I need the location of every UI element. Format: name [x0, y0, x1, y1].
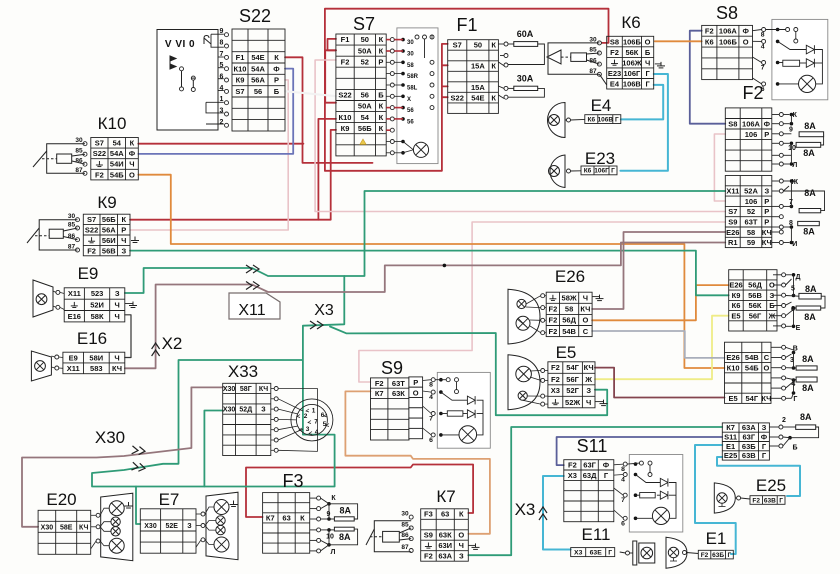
wire 58 Е16-Х2-F2 [125, 243, 726, 369]
svg-text:З: З [115, 289, 120, 298]
svg-text:54А: 54А [251, 64, 265, 73]
svg-text:К: К [122, 215, 127, 224]
svg-text:8А: 8А [803, 148, 815, 158]
svg-text:Е26: Е26 [726, 353, 739, 362]
svg-text:О: О [743, 37, 749, 46]
svg-text:5: 5 [220, 62, 224, 69]
svg-text:К9: К9 [732, 291, 741, 300]
wire 58 Е26-F2B [592, 232, 725, 309]
svg-text:63К: 63К [392, 389, 405, 398]
svg-text:63Б: 63Б [712, 552, 724, 559]
svg-text:Г: Г [615, 116, 619, 123]
svg-text:К: К [274, 53, 279, 62]
svg-text:106: 106 [745, 130, 758, 139]
S11 diode 1 [660, 478, 668, 486]
svg-text:К6: К6 [588, 116, 596, 123]
S8 lamp [799, 75, 816, 92]
svg-text:Ф: Ф [742, 27, 749, 36]
svg-text:Р: Р [764, 130, 769, 139]
svg-text:К: К [491, 62, 496, 71]
svg-text:54: 54 [113, 139, 122, 148]
svg-text:9: 9 [327, 511, 331, 518]
svg-text:К: К [459, 510, 464, 519]
svg-text:87: 87 [401, 544, 409, 551]
svg-text:54Б: 54Б [745, 363, 759, 372]
svg-text:63: 63 [441, 510, 449, 519]
svg-text:30А: 30А [517, 74, 534, 84]
wire 56 S22-S7 white [285, 91, 336, 96]
Е7 pins [201, 512, 205, 516]
svg-text:S7: S7 [728, 207, 737, 216]
К6 relay pins 30 85 86 87 [597, 41, 601, 45]
svg-text:К7: К7 [436, 487, 455, 506]
svg-text:6: 6 [220, 74, 224, 81]
wire 50 loop S7 bottom-right to F1 [325, 44, 448, 171]
svg-text:106Г: 106Г [594, 168, 609, 175]
svg-text:54В: 54В [562, 327, 576, 336]
wire 63В Е25-F2 [717, 457, 800, 496]
svg-text:4: 4 [220, 85, 224, 92]
svg-text:56А: 56А [251, 76, 265, 85]
S11 resistor [640, 493, 656, 498]
wire 63К S9-К7 [345, 391, 490, 533]
К9 relay pins 30 85 86 87 [76, 218, 80, 222]
svg-text:Е4: Е4 [610, 79, 620, 88]
svg-text:К: К [300, 514, 305, 523]
wire 54В Е26-F2D [592, 331, 724, 358]
S8 internals [776, 28, 780, 32]
svg-text:S7: S7 [95, 139, 104, 148]
svg-text:56: 56 [407, 119, 414, 125]
F1 table [448, 40, 499, 114]
svg-text:Ф: Ф [603, 461, 610, 470]
svg-text:50А: 50А [358, 46, 372, 55]
wire 56В К9-F2C [130, 251, 729, 296]
svg-text:30: 30 [68, 213, 76, 220]
svg-text:К10: К10 [234, 64, 247, 73]
svg-text:63В: 63В [764, 497, 776, 504]
S8 diode 2 [806, 59, 814, 68]
svg-text:63Т: 63Т [745, 218, 758, 227]
svg-text:63В: 63В [742, 451, 756, 460]
svg-text:Х30: Х30 [223, 386, 236, 393]
svg-text:56К: 56К [625, 48, 638, 57]
svg-text:58Г: 58Г [240, 386, 252, 393]
wire 56Б К9-S7 [130, 130, 336, 220]
svg-text:56Г: 56Г [749, 311, 762, 320]
svg-text:F2: F2 [549, 305, 558, 314]
svg-text:О: О [763, 363, 769, 372]
К10 table [91, 138, 139, 180]
svg-text:2: 2 [304, 413, 308, 420]
svg-text:54А: 54А [110, 149, 124, 158]
wire 52 Е9-Х11-F2 [125, 191, 726, 293]
svg-text:К6: К6 [584, 168, 592, 175]
svg-text:63Г: 63Г [742, 433, 755, 442]
wire 56Г Е5-F2C [595, 316, 729, 380]
ground К7 [472, 543, 480, 549]
svg-text:Е16: Е16 [68, 312, 81, 321]
wire bracket S7 r2-r7 [325, 50, 336, 102]
svg-text:Е9: Е9 [78, 264, 99, 283]
svg-text:Л: Л [792, 162, 797, 169]
svg-text:2: 2 [220, 119, 224, 126]
svg-text:85: 85 [68, 222, 76, 229]
svg-text:Р: Р [764, 218, 769, 227]
svg-text:S22: S22 [338, 91, 351, 100]
Е16 table [63, 352, 125, 374]
S8 switch box [772, 19, 828, 99]
F2-D table [725, 342, 772, 403]
S7 yellow triangle mark [360, 139, 366, 145]
svg-text:60А: 60А [517, 29, 534, 39]
svg-text:Е20: Е20 [46, 490, 76, 509]
S9 resistor [447, 411, 463, 416]
svg-text:З: З [586, 386, 591, 395]
К7 relay coil and contact [366, 521, 411, 552]
svg-text:4: 4 [315, 429, 319, 436]
svg-text:6: 6 [429, 437, 433, 444]
svg-text:8А: 8А [803, 226, 815, 236]
svg-text:V VI 0: V VI 0 [165, 39, 195, 50]
svg-text:52А: 52А [744, 187, 758, 196]
switch S22 ignition positions box [157, 30, 218, 131]
S9 3rd col offset boxes [409, 377, 423, 439]
svg-text:О: О [582, 316, 588, 325]
svg-text:58К: 58К [91, 312, 104, 321]
ground Е9 [129, 302, 137, 308]
Х33 pins [274, 387, 278, 391]
svg-text:106Б: 106Б [719, 37, 738, 46]
wire 54Б К10-F2D [138, 175, 724, 368]
svg-text:S22: S22 [85, 226, 98, 235]
S11 diode 2 [660, 491, 668, 499]
svg-text:30: 30 [75, 137, 83, 144]
svg-text:15А: 15А [471, 62, 485, 71]
svg-text:Г: Г [645, 69, 650, 78]
wire bracket S7 r1-r2 [328, 39, 337, 50]
wire F1 stub r3 [442, 64, 448, 66]
svg-text:7: 7 [621, 497, 625, 504]
svg-text:Ч: Ч [115, 312, 120, 321]
svg-text:106Б: 106Б [623, 37, 642, 46]
svg-text:F2: F2 [551, 363, 560, 372]
svg-text:58: 58 [747, 228, 755, 237]
svg-text:К7: К7 [266, 514, 275, 523]
Х33 table [223, 383, 271, 455]
К10 relay coil and contact [33, 144, 85, 174]
svg-text:56: 56 [254, 87, 262, 96]
Е20 lamp cluster housing [101, 493, 133, 561]
svg-text:10: 10 [788, 145, 796, 152]
Е20 pins [96, 513, 100, 517]
svg-text:S9: S9 [728, 218, 737, 227]
Х11 callout box [229, 293, 280, 319]
svg-text:F2: F2 [742, 83, 763, 103]
svg-text:52И: 52И [90, 301, 104, 310]
svg-text:Х3: Х3 [314, 302, 334, 319]
svg-text:К6: К6 [732, 301, 741, 310]
svg-text:58Ж: 58Ж [562, 293, 577, 302]
svg-text:106А: 106А [742, 119, 761, 128]
svg-text:КЧ: КЧ [79, 524, 88, 531]
svg-text:F2: F2 [610, 48, 619, 57]
svg-text:106Г: 106Г [624, 69, 642, 78]
svg-text:85: 85 [75, 148, 83, 155]
wire 63 F3-К7 supply [246, 465, 473, 518]
wire 52 Х3 feed [92, 276, 344, 487]
svg-text:5: 5 [791, 286, 795, 293]
svg-text:58: 58 [407, 63, 414, 69]
svg-text:Х2: Х2 [162, 334, 183, 353]
svg-text:Р: Р [378, 57, 383, 66]
svg-text:F2: F2 [375, 379, 384, 388]
svg-text:54: 54 [361, 113, 370, 122]
Е26 pins [541, 294, 545, 298]
svg-text:Х11: Х11 [238, 302, 265, 319]
svg-text:F2: F2 [705, 27, 714, 36]
S11 lamp [652, 507, 669, 524]
wire 63А К7-F2 [468, 427, 722, 555]
S7 switch pins and contacts [390, 38, 394, 42]
svg-text:8А: 8А [804, 121, 816, 131]
svg-text:Ч: Ч [129, 160, 134, 169]
К10 relay pins 30 85 86 87 [83, 142, 87, 146]
svg-text:54Е: 54Е [251, 53, 264, 62]
svg-text:Е23: Е23 [608, 69, 621, 78]
svg-text:К10: К10 [98, 114, 127, 133]
wire 52Д Х33 branch [204, 411, 222, 487]
svg-text:Х11: Х11 [67, 364, 80, 373]
К6 relay coil and flasher arrow [547, 43, 607, 85]
svg-text:О: О [645, 37, 651, 46]
svg-text:7: 7 [429, 416, 433, 423]
svg-text:54В: 54В [745, 353, 759, 362]
svg-text:Е26: Е26 [729, 281, 742, 290]
Е5 lamp housing [508, 355, 540, 410]
wire 56А S22-К9 [130, 80, 288, 230]
svg-text:Ж: Ж [584, 375, 592, 384]
ground Е5 [600, 400, 608, 406]
svg-text:Р: Р [764, 207, 769, 216]
svg-text:54Г: 54Г [566, 363, 579, 372]
svg-text:8А: 8А [802, 383, 814, 393]
svg-text:Е26: Е26 [555, 267, 585, 286]
svg-text:8А: 8А [804, 188, 816, 198]
svg-text:52: 52 [361, 57, 369, 66]
ground Е26 [596, 295, 604, 301]
К7 table [421, 509, 469, 561]
Е25 lamp housing [714, 483, 735, 513]
svg-text:52Ж: 52Ж [565, 398, 580, 407]
svg-text:56А: 56А [102, 226, 116, 235]
svg-text:Е5: Е5 [729, 394, 738, 403]
svg-text:Г: Г [611, 168, 615, 175]
svg-text:85: 85 [401, 521, 409, 528]
svg-text:9: 9 [789, 126, 793, 133]
svg-text:63И: 63И [438, 541, 452, 550]
svg-text:F2: F2 [549, 327, 558, 336]
Е11 lamp symbol [633, 541, 637, 565]
svg-text:О: О [129, 170, 135, 179]
svg-text:F2: F2 [551, 375, 560, 384]
connector Х3 top [310, 321, 323, 329]
S8 arms from table [753, 30, 762, 84]
svg-text:106: 106 [745, 197, 758, 206]
svg-text:7: 7 [314, 418, 318, 425]
svg-text:КЧ: КЧ [580, 305, 590, 314]
svg-text:4: 4 [761, 43, 765, 50]
Е23 lamp housing [550, 155, 565, 188]
S7 instrument lamp [413, 142, 428, 157]
wire 54 К10-S7 [138, 143, 303, 145]
svg-text:56Д: 56Д [562, 316, 576, 325]
S9 diode 1 [467, 396, 475, 404]
wire 58Г-58Е Е20 net [22, 387, 191, 526]
wire 54 S7r8-down [318, 119, 336, 220]
svg-text:R1: R1 [728, 238, 738, 247]
S9 diode 2 [467, 410, 475, 418]
F2-B pins and fuses [779, 179, 783, 183]
F2-E table [722, 423, 769, 460]
S9 pins 8 4 7 6 [431, 378, 435, 382]
svg-text:8А: 8А [802, 354, 814, 364]
svg-text:56: 56 [361, 91, 369, 100]
svg-text:Г: Г [728, 552, 732, 559]
svg-text:87: 87 [75, 167, 83, 174]
svg-text:8А: 8А [339, 532, 351, 542]
svg-text:Х11: Х11 [68, 289, 81, 298]
svg-text:F3: F3 [282, 471, 303, 491]
svg-text:F3: F3 [424, 510, 433, 519]
F3 pins and fuses [317, 496, 321, 500]
svg-text:Б: Б [378, 91, 384, 100]
svg-text:8А: 8А [340, 505, 352, 515]
svg-text:S8: S8 [716, 3, 738, 23]
svg-text:54И: 54И [110, 160, 124, 169]
svg-text:Ф: Ф [764, 119, 771, 128]
svg-text:52: 52 [747, 207, 755, 216]
junction dot 58 corridor [443, 264, 447, 268]
svg-text:К: К [379, 124, 384, 133]
connector Х30 [132, 446, 146, 455]
svg-text:6: 6 [621, 520, 625, 527]
wire 54А S22-К10 [138, 69, 293, 154]
svg-text:Ч: Ч [583, 293, 588, 302]
svg-text:Б: Б [792, 444, 797, 451]
svg-text:Е25: Е25 [756, 476, 786, 495]
svg-text:86: 86 [401, 532, 409, 539]
svg-text:63К: 63К [439, 531, 452, 540]
svg-text:1: 1 [220, 96, 224, 103]
svg-text:К: К [379, 46, 384, 55]
svg-text:Р: Р [274, 76, 279, 85]
svg-text:К: К [130, 139, 135, 148]
svg-text:Ч: Ч [645, 58, 650, 67]
svg-text:КЧ: КЧ [762, 238, 772, 247]
S11 internals [634, 462, 638, 466]
svg-text:S8: S8 [610, 37, 619, 46]
svg-text:58И: 58И [89, 353, 103, 362]
svg-text:63Б: 63Б [742, 442, 756, 451]
svg-text:З: З [187, 523, 192, 530]
svg-text:Р: Р [121, 226, 126, 235]
svg-text:S7: S7 [87, 215, 96, 224]
svg-text:8: 8 [621, 466, 625, 473]
F2-D pins and fuses [782, 345, 786, 349]
svg-text:S11: S11 [577, 436, 608, 456]
svg-text:4: 4 [429, 394, 433, 401]
svg-text:8А: 8А [805, 284, 817, 294]
svg-text:К: К [331, 495, 336, 502]
Е1 lamp housing [666, 537, 687, 568]
svg-text:56Г: 56Г [566, 375, 579, 384]
wire 52 S7-F2 [315, 60, 725, 212]
svg-text:63Е: 63Е [590, 550, 603, 557]
svg-text:Е4: Е4 [591, 96, 612, 115]
svg-text:Ч: Ч [121, 236, 126, 245]
svg-text:63Т: 63Т [392, 379, 405, 388]
К7 relay pins 30 85 86 87 [409, 515, 413, 519]
svg-text:7: 7 [220, 51, 224, 58]
S8 resistor [783, 60, 800, 66]
svg-text:54Б: 54Б [110, 170, 124, 179]
Е23 tag table [581, 166, 617, 175]
svg-text:Ф: Ф [129, 149, 136, 158]
svg-text:F2: F2 [568, 461, 577, 470]
connector Х3 bottom [539, 507, 547, 520]
Е16 lamp housing [31, 351, 51, 381]
svg-text:54Е: 54Е [471, 93, 484, 102]
svg-text:Х3: Х3 [515, 500, 536, 519]
svg-text:К6: К6 [621, 13, 640, 32]
svg-text:Е25: Е25 [724, 451, 737, 460]
Х33 round connector [291, 399, 333, 441]
svg-text:К9: К9 [97, 193, 116, 212]
svg-text:Х30: Х30 [41, 524, 54, 531]
F2-C pins and fuses [782, 273, 786, 277]
S9 table [371, 378, 410, 440]
svg-text:S7: S7 [453, 41, 462, 50]
svg-text:58Е: 58Е [60, 524, 73, 531]
svg-text:56Д: 56Д [748, 281, 762, 290]
svg-text:Е16: Е16 [77, 329, 107, 348]
connector Х2 [152, 343, 160, 356]
Е20 table [38, 510, 91, 554]
svg-text:К9: К9 [341, 124, 350, 133]
F2-A pins and fuses [779, 113, 783, 117]
svg-text:63Г: 63Г [583, 461, 596, 470]
svg-text:X: X [407, 97, 411, 103]
svg-text:3: 3 [220, 108, 224, 115]
F3 table [263, 493, 310, 554]
svg-text:F1: F1 [456, 15, 477, 35]
svg-text:S9: S9 [381, 358, 403, 378]
svg-text:52Е: 52Е [165, 523, 178, 530]
svg-text:Х3: Х3 [551, 386, 560, 395]
svg-text:Е1: Е1 [706, 529, 727, 548]
svg-text:К7: К7 [726, 423, 735, 432]
svg-text:Р: Р [413, 378, 418, 387]
F2-E pins fuse 8А [779, 425, 783, 429]
svg-text:7: 7 [761, 65, 765, 72]
svg-text:Р: Р [764, 197, 769, 206]
svg-text:Г: Г [779, 497, 783, 504]
wire 58Г Х33 branch [191, 386, 222, 388]
svg-text:87: 87 [589, 68, 597, 75]
svg-text:F2: F2 [752, 497, 760, 504]
S11 pins 8 4 7 6 [623, 462, 627, 466]
